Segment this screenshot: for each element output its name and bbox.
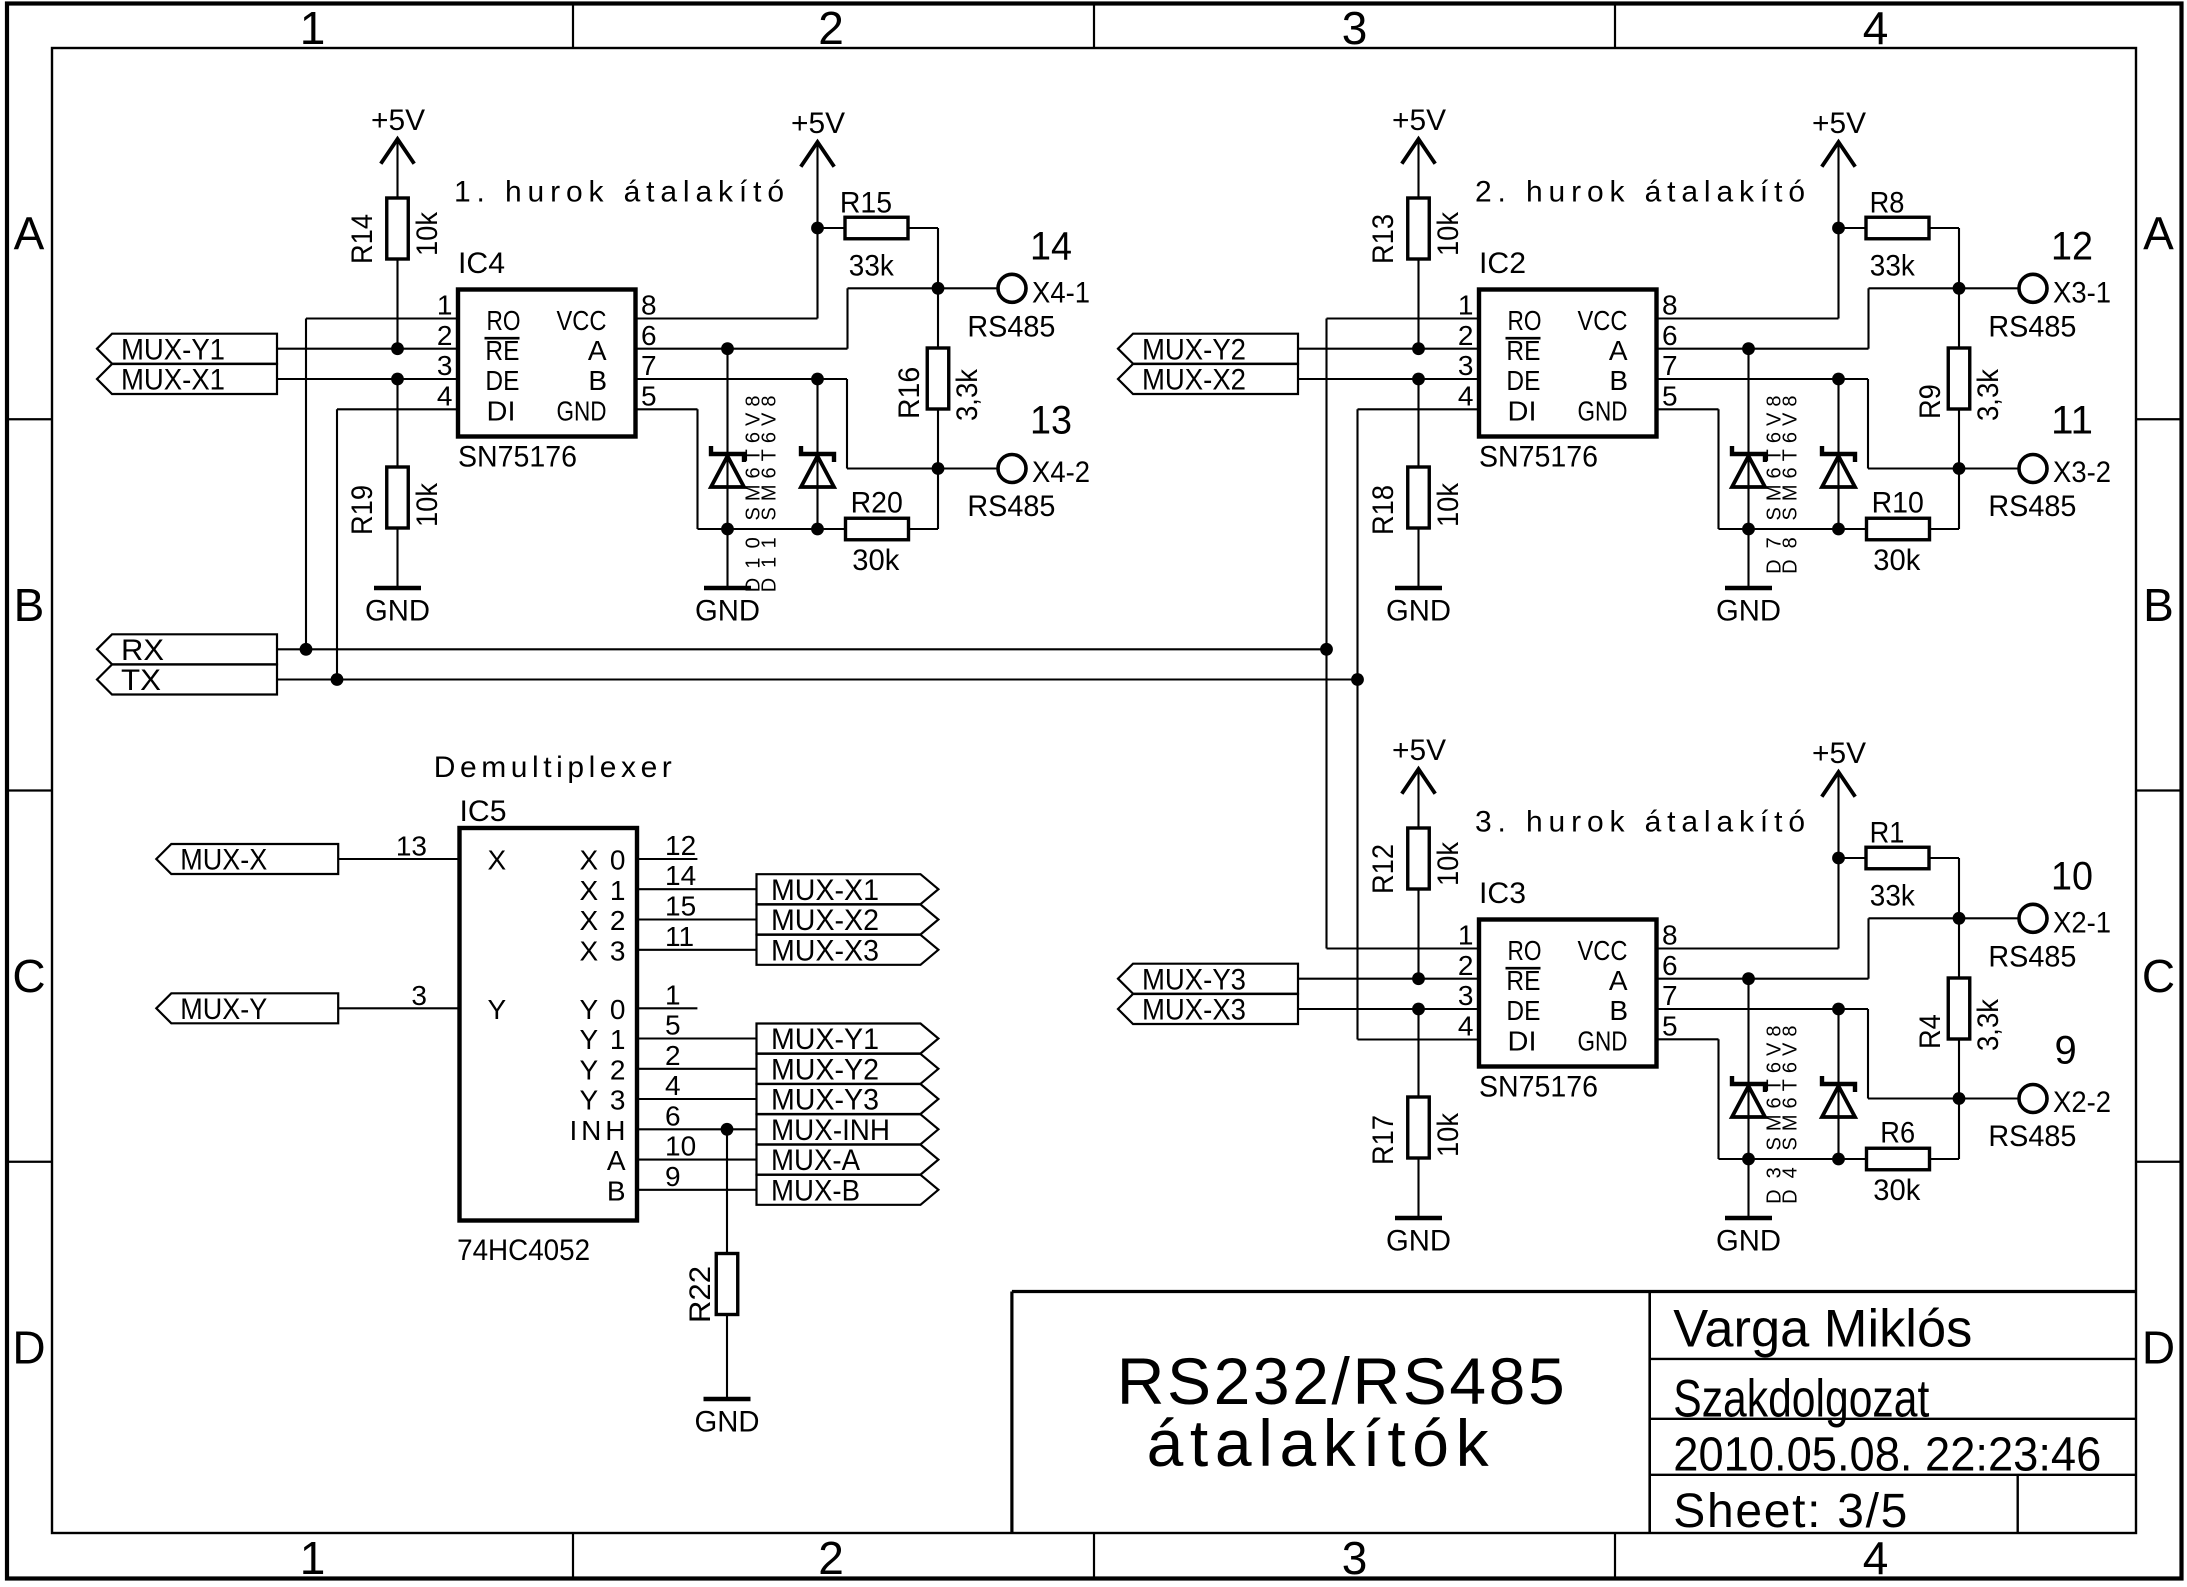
wire GND pin 5 of IC3 to ground net [1657, 1039, 1868, 1159]
svg-text:RO: RO [1508, 935, 1542, 966]
junction on RE net [1412, 972, 1425, 985]
IC5 left pin numbers 13, 3 [396, 831, 427, 1011]
svg-text:C: C [12, 950, 45, 1002]
svg-text:DE: DE [485, 365, 519, 396]
svg-text:MUX-Y: MUX-Y [180, 993, 267, 1026]
title text RS232/RS485 atalakitok [1117, 1344, 1565, 1480]
svg-text:GND: GND [557, 395, 607, 426]
junction ground net at D3 [1742, 1153, 1755, 1166]
junction ground net at D7 [1742, 523, 1755, 536]
svg-text:MUX-Y3: MUX-Y3 [1142, 963, 1246, 996]
svg-text:RO: RO [1508, 305, 1542, 336]
wire node X3-2 to terminal X3-2 [1959, 467, 2019, 469]
wire B pin 7 of IC2 to node X3-2 [1657, 379, 1960, 469]
svg-text:VCC: VCC [557, 305, 607, 336]
zener diode D8 SM6T6V8 [1822, 379, 1855, 529]
svg-text:33k: 33k [1870, 880, 1916, 913]
svg-text:2: 2 [818, 1532, 844, 1584]
svg-text:GND: GND [365, 595, 430, 628]
power +5V supply (left, above R14) [371, 104, 425, 164]
svg-text:R12: R12 [1367, 844, 1400, 894]
svg-text:6: 6 [1662, 950, 1678, 981]
svg-text:B: B [1609, 365, 1628, 396]
svg-text:15: 15 [665, 891, 696, 922]
wire ground net to ground symbol [1747, 1159, 1749, 1216]
wire +5V node to R15 [818, 227, 846, 229]
svg-text:14: 14 [1030, 225, 1072, 269]
svg-text:A: A [1609, 335, 1628, 366]
junction node X3-2 [1953, 462, 1966, 475]
junction on RE net [1412, 342, 1425, 355]
junction TX riser [1351, 673, 1364, 686]
resistor R15 33k [840, 187, 908, 283]
ground symbol below D7 [1716, 588, 1781, 628]
net flag MUX-X1 [757, 874, 939, 907]
wire DE net to R19 [396, 379, 398, 467]
junction node X2-2 [1953, 1092, 1966, 1105]
junction node X4-1 [932, 282, 945, 295]
net flag MUX-X3 [1118, 994, 1298, 1027]
svg-text:X3-1: X3-1 [2053, 277, 2111, 310]
svg-text:A: A [2143, 208, 2174, 260]
svg-text:+5V: +5V [1392, 104, 1446, 137]
net flag MUX-Y2 [1118, 333, 1298, 366]
power +5V supply (right, VCC of IC2) [1812, 107, 1866, 167]
svg-text:SM6T6V8: SM6T6V8 [1779, 1026, 1801, 1151]
svg-text:11: 11 [2051, 399, 2093, 443]
wire R22 to ground [726, 1315, 728, 1400]
resistor R1 33k [1866, 817, 1929, 913]
junction on DE net [391, 373, 404, 386]
junction TX at IC4 branch [331, 673, 344, 686]
svg-text:6: 6 [641, 320, 657, 351]
svg-text:R1: R1 [1870, 817, 1905, 850]
svg-text:8: 8 [1662, 290, 1678, 321]
svg-text:4: 4 [1458, 1010, 1474, 1041]
svg-text:IC5: IC5 [460, 795, 507, 828]
svg-text:13: 13 [396, 831, 427, 862]
svg-text:9: 9 [2055, 1029, 2077, 1073]
ground symbol below R22 [695, 1399, 760, 1439]
net flag MUX-B [757, 1174, 939, 1207]
svg-text:IC3: IC3 [1479, 877, 1526, 910]
power +5V supply (right, VCC of IC4) [791, 107, 845, 167]
svg-text:D: D [2142, 1321, 2175, 1373]
IC4 pin numbers 8,6,7,5 [641, 290, 657, 412]
svg-text:5: 5 [1662, 1010, 1678, 1041]
wire MUX-X to IC5 pin 13 X [338, 858, 459, 860]
svg-text:2: 2 [1458, 950, 1474, 981]
wire node X2-1 to terminal X2-1 [1959, 917, 2019, 919]
svg-text:SN75176: SN75176 [1479, 1071, 1598, 1104]
sheet field [1673, 1485, 1907, 1538]
svg-text:RS485: RS485 [1988, 490, 2076, 523]
svg-text:R19: R19 [346, 485, 379, 535]
svg-text:MUX-X2: MUX-X2 [1142, 364, 1246, 397]
svg-text:6: 6 [665, 1100, 681, 1131]
svg-text:A: A [607, 1145, 626, 1176]
wire +5V node to R1 [1839, 857, 1867, 859]
svg-text:+5V: +5V [371, 104, 425, 137]
svg-text:3,3k: 3,3k [1972, 998, 2005, 1051]
svg-text:GND: GND [1716, 1225, 1781, 1258]
svg-text:7: 7 [1662, 350, 1678, 381]
svg-text:GND: GND [1578, 1025, 1628, 1056]
svg-text:11: 11 [665, 921, 694, 952]
power +5V supply (left, above R13) [1392, 104, 1446, 164]
resistor R17 10k (pull-down) [1367, 1097, 1465, 1165]
wire IC5 pin 11 X3 to flag MUX-X3 [637, 921, 757, 952]
svg-text:RS485: RS485 [1988, 311, 2076, 344]
svg-text:Varga Miklós: Varga Miklós [1673, 1300, 1972, 1359]
terminal X3-2 RS485 pad 11 [1988, 399, 2111, 524]
svg-text:2010.05.08. 22:23:46: 2010.05.08. 22:23:46 [1673, 1429, 2101, 1482]
svg-text:2: 2 [437, 320, 453, 351]
wire R8 to node X3-1 [1929, 228, 1959, 288]
wire A pin 6 of IC3 to node X2-1 [1657, 918, 1960, 978]
terminal X4-1 RS485 pad 14 [967, 225, 1090, 344]
net flag MUX-Y [156, 993, 338, 1026]
wire MUX-Y to IC5 pin 3 Y [338, 1007, 459, 1009]
zener diode D3 SM6T6V8 [1732, 979, 1765, 1159]
svg-text:1: 1 [1458, 920, 1474, 951]
svg-text:SN75176: SN75176 [1479, 441, 1598, 474]
net flag MUX-X1 [97, 364, 277, 397]
svg-text:RS485: RS485 [967, 311, 1055, 344]
wire IC2 pin 4 DI to TX riser [1358, 408, 1480, 410]
project field Szakdolgozat [1673, 1370, 1929, 1429]
svg-text:IC2: IC2 [1479, 247, 1526, 280]
wire A pin 6 of IC2 to node X3-1 [1657, 288, 1960, 348]
resistor R18 10k (pull-down) [1367, 467, 1465, 535]
IC2 pin numbers 8,6,7,5 [1662, 290, 1678, 412]
net flag MUX-X2 [757, 904, 939, 937]
terminal X4-2 RS485 pad 13 [967, 399, 1090, 524]
zener diode D10 SM6T6V8 [711, 349, 744, 529]
svg-text:R20: R20 [851, 487, 903, 520]
svg-text:SN75176: SN75176 [458, 441, 577, 474]
svg-text:RX: RX [121, 634, 164, 667]
wire DE net to R18 [1417, 379, 1419, 467]
labels D10 SM6T6V8 [742, 396, 764, 593]
wire MUX-Y2 to pin 2 RE [1298, 348, 1479, 350]
svg-text:+5V: +5V [1392, 734, 1446, 767]
svg-text:10k: 10k [1432, 1112, 1465, 1157]
svg-text:GND: GND [695, 1406, 760, 1439]
svg-text:SM6T6V8: SM6T6V8 [1779, 396, 1801, 521]
resistor R12 10k (pull-up) [1367, 828, 1465, 894]
wire MUX-Y1 to pin 2 RE [277, 348, 458, 350]
power +5V supply (left, above R12) [1392, 734, 1446, 794]
svg-text:RS485: RS485 [1988, 1120, 2076, 1153]
title block frame [1012, 1292, 2136, 1534]
net flag MUX-X [156, 844, 338, 877]
wire R17 to ground [1417, 1158, 1419, 1216]
power +5V supply (right, VCC of IC3) [1812, 737, 1866, 797]
IC2 pin numbers 1,2,3,4 [1458, 290, 1474, 412]
svg-text:12: 12 [2051, 225, 2093, 269]
labels D11 SM6T6V8 [758, 396, 780, 593]
svg-text:4: 4 [665, 1070, 681, 1101]
svg-text:X2-1: X2-1 [2053, 907, 2111, 940]
svg-text:3,3k: 3,3k [951, 368, 984, 421]
svg-text:R16: R16 [893, 367, 926, 419]
wire IC5 pin 5 Y1 to flag MUX-Y1 [637, 1010, 757, 1041]
net flag MUX-Y1 [97, 333, 277, 366]
IC IC2 SN75176 transceiver [1479, 247, 1657, 474]
svg-text:3: 3 [437, 350, 453, 381]
svg-text:10: 10 [2051, 855, 2093, 899]
svg-text:R4: R4 [1914, 1014, 1947, 1049]
wire node X2-2 to terminal X2-2 [1959, 1097, 2019, 1099]
resistor R6 30k [1867, 1099, 1960, 1208]
wire IC3 pin 4 DI to TX riser [1358, 1038, 1480, 1040]
date field [1673, 1429, 2101, 1482]
svg-text:13: 13 [1030, 399, 1072, 443]
svg-text:R10: R10 [1872, 487, 1924, 520]
svg-text:GND: GND [1716, 595, 1781, 628]
stub IC5 pin 12 X0 (n.c.) [637, 830, 697, 861]
junction on RE net [391, 342, 404, 355]
section title '3. hurok átalakító' [1475, 806, 1805, 839]
wire ground net to ground symbol [726, 529, 728, 586]
net flag RX [97, 634, 277, 667]
svg-text:IC4: IC4 [458, 247, 505, 280]
wire IC2 pin 1 RO to RX riser [1327, 317, 1480, 319]
wire VCC pin 8 of IC4 to +5V [636, 144, 818, 319]
svg-text:10k: 10k [411, 482, 444, 527]
svg-text:MUX-Y2: MUX-Y2 [1142, 333, 1246, 366]
resistor R19 10k (pull-down) [346, 467, 444, 535]
net flag MUX-Y2 [757, 1053, 939, 1086]
junction +5V / R15 [811, 222, 824, 235]
resistor R22 [684, 1254, 738, 1324]
junction RX at IC4 branch [300, 643, 313, 656]
svg-text:R9: R9 [1914, 384, 1947, 419]
svg-text:MUX-A: MUX-A [771, 1144, 860, 1177]
svg-text:1: 1 [665, 979, 681, 1010]
wire +5V node to R8 [1839, 227, 1867, 229]
svg-text:4: 4 [1458, 380, 1474, 411]
svg-text:4: 4 [437, 380, 453, 411]
wire B pin 7 of IC3 to node X2-2 [1657, 1009, 1960, 1099]
svg-text:10k: 10k [1432, 482, 1465, 527]
junction ground net at D4 [1832, 1153, 1845, 1166]
labels D7 SM6T6V8 [1763, 396, 1785, 574]
wire B pin 7 of IC4 to node X4-2 [636, 379, 939, 469]
section title '1. hurok átalakító' [454, 176, 784, 209]
net flag MUX-A [757, 1144, 939, 1177]
junction B net at D8 [1832, 373, 1845, 386]
junction ground net at D10 [721, 523, 734, 536]
wire GND pin 5 of IC4 to ground net [636, 409, 847, 529]
IC IC3 SN75176 transceiver [1479, 877, 1657, 1104]
wire R19 to ground [396, 528, 398, 586]
svg-text:RS485: RS485 [967, 490, 1055, 523]
wire IC3 pin 1 RO to RX riser [1327, 947, 1480, 949]
junction A net at D10 [721, 342, 734, 355]
svg-text:3: 3 [1458, 350, 1474, 381]
wire IC4 pin 1 RO to RX [306, 319, 458, 650]
svg-text:B: B [607, 1176, 626, 1207]
svg-text:1: 1 [437, 290, 453, 321]
svg-text:GND: GND [1386, 595, 1451, 628]
wire MUX-X3 to pin 3 DE [1298, 1008, 1479, 1010]
ground symbol below R18 [1386, 588, 1451, 628]
labels D8 SM6T6V8 [1779, 396, 1801, 574]
svg-text:R8: R8 [1870, 187, 1905, 220]
svg-text:30k: 30k [852, 544, 900, 577]
wire MUX-X2 to pin 3 DE [1298, 378, 1479, 380]
svg-text:74HC4052: 74HC4052 [457, 1234, 590, 1267]
ground symbol below R17 [1386, 1218, 1451, 1258]
resistor R10 30k [1867, 469, 1960, 578]
svg-text:+5V: +5V [1812, 737, 1866, 770]
svg-text:5: 5 [665, 1010, 681, 1041]
svg-text:C: C [2142, 950, 2175, 1002]
IC IC4 SN75176 transceiver [458, 247, 636, 474]
svg-text:R15: R15 [840, 187, 892, 220]
svg-text:R17: R17 [1367, 1115, 1400, 1165]
svg-text:3: 3 [1458, 980, 1474, 1011]
svg-text:8: 8 [1662, 920, 1678, 951]
svg-text:14: 14 [665, 860, 696, 891]
junction node X3-1 [1953, 282, 1966, 295]
wire IC5 pin 14 X1 to flag MUX-X1 [637, 860, 757, 891]
svg-text:10k: 10k [411, 211, 444, 256]
svg-text:DI: DI [1508, 395, 1537, 426]
svg-text:MUX-X1: MUX-X1 [771, 874, 879, 907]
svg-text:2: 2 [665, 1040, 681, 1071]
svg-text:5: 5 [641, 380, 657, 411]
wire IC5 pin 9 B to flag MUX-B [637, 1161, 757, 1192]
resistor R14 10k (pull-up) [346, 198, 444, 264]
net flag MUX-Y1 [757, 1023, 939, 1056]
wire node X4-2 to terminal X4-2 [938, 467, 998, 469]
wire node X4-1 to terminal X4-1 [938, 287, 998, 289]
wire VCC pin 8 of IC3 to +5V [1657, 774, 1839, 949]
wire ground net to ground symbol [1747, 529, 1749, 586]
wire A pin 6 of IC4 to node X4-1 [636, 288, 939, 348]
svg-text:MUX-Y1: MUX-Y1 [121, 333, 225, 366]
svg-text:R6: R6 [1880, 1117, 1915, 1150]
wire R15 to node X4-1 [908, 228, 938, 288]
svg-text:D: D [12, 1321, 45, 1373]
junction A net at D7 [1742, 342, 1755, 355]
svg-text:DE: DE [1506, 995, 1540, 1026]
svg-text:MUX-INH: MUX-INH [771, 1114, 890, 1147]
svg-text:Sheet: 3/5: Sheet: 3/5 [1673, 1485, 1907, 1538]
wire TX bus [277, 678, 1358, 680]
svg-text:7: 7 [641, 350, 657, 381]
resistor R16 3,3k (termination) [893, 288, 984, 468]
svg-text:DI: DI [1508, 1025, 1537, 1056]
terminal X3-1 RS485 pad 12 [1988, 225, 2111, 344]
svg-text:33k: 33k [1870, 250, 1916, 283]
wire R12 to RE net [1417, 889, 1419, 979]
wire +5V to R12 [1417, 771, 1419, 828]
svg-text:GND: GND [1386, 1225, 1451, 1258]
junction ground net at D11 [811, 523, 824, 536]
svg-text:B: B [1609, 995, 1628, 1026]
ground symbol below D3 [1716, 1218, 1781, 1258]
wire VCC pin 8 of IC2 to +5V [1657, 144, 1839, 319]
svg-text:X2-2: X2-2 [2053, 1086, 2111, 1119]
svg-text:3: 3 [411, 980, 427, 1011]
resistor R8 33k [1866, 187, 1929, 283]
ground symbol below R19 [365, 588, 430, 628]
svg-text:7: 7 [1662, 980, 1678, 1011]
svg-text:D11: D11 [758, 537, 780, 592]
svg-text:+5V: +5V [1812, 107, 1866, 140]
wire IC5 pin 2 Y2 to flag MUX-Y2 [637, 1040, 757, 1071]
svg-text:9: 9 [665, 1161, 681, 1192]
svg-text:4: 4 [1863, 2, 1889, 54]
svg-text:B: B [14, 579, 45, 631]
wire IC4 pin 4 DI to TX [337, 409, 458, 679]
svg-text:MUX-X3: MUX-X3 [771, 934, 879, 967]
zener diode D4 SM6T6V8 [1822, 1009, 1855, 1159]
svg-text:+5V: +5V [791, 107, 845, 140]
svg-text:MUX-X2: MUX-X2 [771, 904, 879, 937]
svg-text:VCC: VCC [1578, 935, 1628, 966]
svg-text:R22: R22 [684, 1266, 717, 1323]
svg-text:A: A [14, 208, 45, 260]
net flag MUX-INH [757, 1114, 939, 1147]
resistor R20 30k [846, 469, 939, 578]
svg-text:VCC: VCC [1578, 305, 1628, 336]
net flag MUX-X2 [1118, 364, 1298, 397]
svg-text:10k: 10k [1432, 211, 1465, 256]
svg-text:DE: DE [1506, 365, 1540, 396]
wire RX riser to IC2 pin 1 and IC3 pin 1 [1325, 319, 1327, 949]
junction MUX-INH / R22 [721, 1123, 734, 1136]
net flag MUX-Y3 [1118, 963, 1298, 996]
junction node X2-1 [1953, 912, 1966, 925]
labels D4 SM6T6V8 [1779, 1026, 1801, 1204]
svg-text:MUX-Y2: MUX-Y2 [771, 1053, 879, 1086]
svg-text:R13: R13 [1367, 214, 1400, 264]
svg-text:TX: TX [121, 664, 161, 697]
svg-text:DI: DI [487, 395, 516, 426]
labels D3 SM6T6V8 [1763, 1026, 1785, 1204]
wire +5V to R13 [1417, 141, 1419, 198]
svg-text:A: A [1609, 965, 1628, 996]
svg-text:5: 5 [1662, 380, 1678, 411]
svg-text:1: 1 [300, 2, 326, 54]
svg-text:2: 2 [818, 2, 844, 54]
svg-text:MUX-Y3: MUX-Y3 [771, 1084, 879, 1117]
svg-text:8: 8 [641, 290, 657, 321]
zener diode D11 SM6T6V8 [801, 379, 834, 529]
junction node X4-2 [932, 462, 945, 475]
svg-text:4: 4 [1863, 1532, 1889, 1584]
wire R18 to ground [1417, 528, 1419, 586]
stub IC5 pin 1 Y0 (n.c.) [637, 979, 697, 1010]
section title '2. hurok átalakító' [1475, 176, 1805, 209]
junction on DE net [1412, 1003, 1425, 1016]
svg-text:RS485: RS485 [1988, 941, 2076, 974]
wire MUX-X1 to pin 3 DE [277, 378, 458, 380]
svg-text:MUX-X: MUX-X [180, 844, 267, 877]
net flag MUX-X3 [757, 934, 939, 967]
svg-text:MUX-X1: MUX-X1 [121, 364, 225, 397]
svg-text:6: 6 [1662, 320, 1678, 351]
terminal X2-1 RS485 pad 10 [1988, 855, 2111, 974]
svg-text:X3-2: X3-2 [2053, 456, 2111, 489]
IC3 pin numbers 1,2,3,4 [1458, 920, 1474, 1042]
svg-text:MUX-X3: MUX-X3 [1142, 994, 1246, 1027]
